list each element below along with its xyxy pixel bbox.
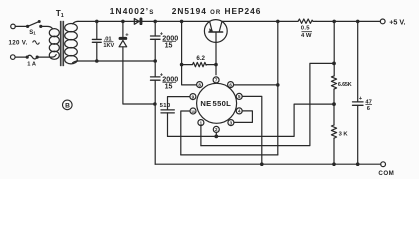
secondary bottom wire <box>78 60 156 62</box>
node dot 6.2 riser <box>180 20 182 22</box>
diode D2 1N4002 vertical <box>119 21 128 61</box>
wire divider column top <box>333 21 335 76</box>
wire <box>15 25 27 27</box>
wire <box>15 56 27 58</box>
resistor 3K <box>331 125 336 138</box>
wire pin10 bus3 <box>181 111 190 155</box>
wire riser to 6.2 and pin8 <box>182 21 197 85</box>
capacitor C4 47uF <box>353 101 364 103</box>
bus2 <box>201 63 334 145</box>
pin 9 <box>190 94 196 100</box>
pin 7 <box>213 77 219 83</box>
node pin6 riser junction <box>277 84 279 86</box>
svg-text:15: 15 <box>165 42 173 49</box>
node 6.2 to base junction <box>215 63 217 65</box>
jumper pin4-pin3 <box>234 111 252 123</box>
node 6.2 left junction <box>180 63 182 65</box>
transformer T1 primary winding <box>49 29 59 60</box>
capacitor .01 1KV <box>92 21 101 62</box>
svg-text:+: + <box>125 32 129 38</box>
terminal input bottom <box>11 55 16 60</box>
svg-text:+5 V.: +5 V. <box>389 18 405 27</box>
svg-text:B: B <box>65 102 70 109</box>
resistor 6.65K <box>331 76 336 89</box>
node 6.65K top <box>333 62 336 65</box>
node dot .01 branch <box>96 20 98 22</box>
node 3K to rail <box>333 163 335 165</box>
svg-text:NE550L: NE550L <box>200 99 231 108</box>
svg-text:15: 15 <box>165 83 173 90</box>
bus1 wire to divider tap <box>168 104 335 136</box>
node dot caps branch <box>154 20 156 22</box>
node pin5 ground junction <box>261 163 263 165</box>
node pin2 bus1 junction <box>215 135 218 138</box>
transformer T1 secondary winding <box>65 24 78 64</box>
svg-text:120 V.: 120 V. <box>9 39 28 46</box>
wire pin6 to raw riser <box>234 84 278 86</box>
wire divider bottom <box>333 138 335 164</box>
pin 5 <box>236 93 242 99</box>
svg-text:COM: COM <box>378 170 394 177</box>
pin 4 <box>236 108 242 114</box>
fuse 1A <box>26 55 38 59</box>
node raw output riser junction <box>277 20 279 22</box>
pin digits <box>191 78 241 133</box>
diode D1 1N4002 horizontal <box>134 18 142 26</box>
terminal COM <box>381 162 386 167</box>
transistor Q1 2N5194 <box>204 20 227 75</box>
wire fuse to primary bottom <box>37 55 56 58</box>
IC U1 NE550L body <box>197 83 237 123</box>
resistor 6.2 <box>182 62 216 66</box>
svg-text:S1: S1 <box>29 30 36 36</box>
node divider column junction <box>333 20 335 22</box>
wire secondary bottom to lower wire <box>73 61 79 63</box>
bus3 <box>181 154 278 156</box>
wire divider mid <box>333 89 335 125</box>
svg-text:3 K: 3 K <box>339 131 349 137</box>
wire pin1 bus2 <box>200 126 202 146</box>
wire 47uF column top <box>357 21 359 102</box>
pin 8 <box>197 82 203 88</box>
svg-text:1 A: 1 A <box>27 61 36 67</box>
pin 6 <box>228 82 234 88</box>
terminal input top <box>11 24 16 29</box>
top rail left segment <box>78 20 210 22</box>
svg-text:1N4002’S: 1N4002’S <box>110 6 155 16</box>
svg-text:2N5194 OR HEP246: 2N5194 OR HEP246 <box>172 6 262 16</box>
resistor 0.5 4W <box>298 19 316 23</box>
svg-text:510: 510 <box>160 103 171 109</box>
pin 10 <box>190 108 196 114</box>
wire secondary top to rail <box>73 21 79 23</box>
switch S1 <box>27 21 42 28</box>
transformer core <box>60 21 63 66</box>
wire pin9 to 510 cap <box>168 97 190 110</box>
svg-text:6: 6 <box>367 106 371 112</box>
wire D2 bottom L to caps column <box>123 61 155 104</box>
wire 47uF column bottom <box>357 105 359 164</box>
riser raw V+ <box>277 21 279 155</box>
pin 1 <box>198 120 204 126</box>
pin 2 <box>213 126 219 132</box>
svg-text:0.5: 0.5 <box>301 26 311 32</box>
svg-text:1KV: 1KV <box>103 43 114 49</box>
svg-text:+: + <box>359 96 363 102</box>
svg-text:4 W: 4 W <box>301 33 312 39</box>
node dot D2 branch <box>122 20 124 22</box>
terminal +5V <box>380 19 385 24</box>
bottom rail <box>155 163 381 165</box>
node 47uF to rail <box>357 163 359 165</box>
node 47uF column junction <box>357 20 359 22</box>
wire pin5 to ground <box>243 96 262 164</box>
node divider tap <box>333 103 336 106</box>
filter caps 2000/15 column <box>151 21 161 164</box>
svg-text:10: 10 <box>191 110 195 114</box>
top rail right segment <box>222 20 298 22</box>
wire pin2 stub <box>215 132 217 136</box>
node caps column junction <box>154 103 156 105</box>
wire to transformer primary <box>41 26 53 28</box>
svg-text:6.65K: 6.65K <box>338 82 352 88</box>
svg-text:T1: T1 <box>56 9 64 19</box>
wire <box>316 20 380 22</box>
capacitor 510 <box>161 110 174 136</box>
pin 3 <box>228 120 234 126</box>
svg-text:6.2: 6.2 <box>196 55 205 62</box>
label circle B <box>63 100 73 110</box>
